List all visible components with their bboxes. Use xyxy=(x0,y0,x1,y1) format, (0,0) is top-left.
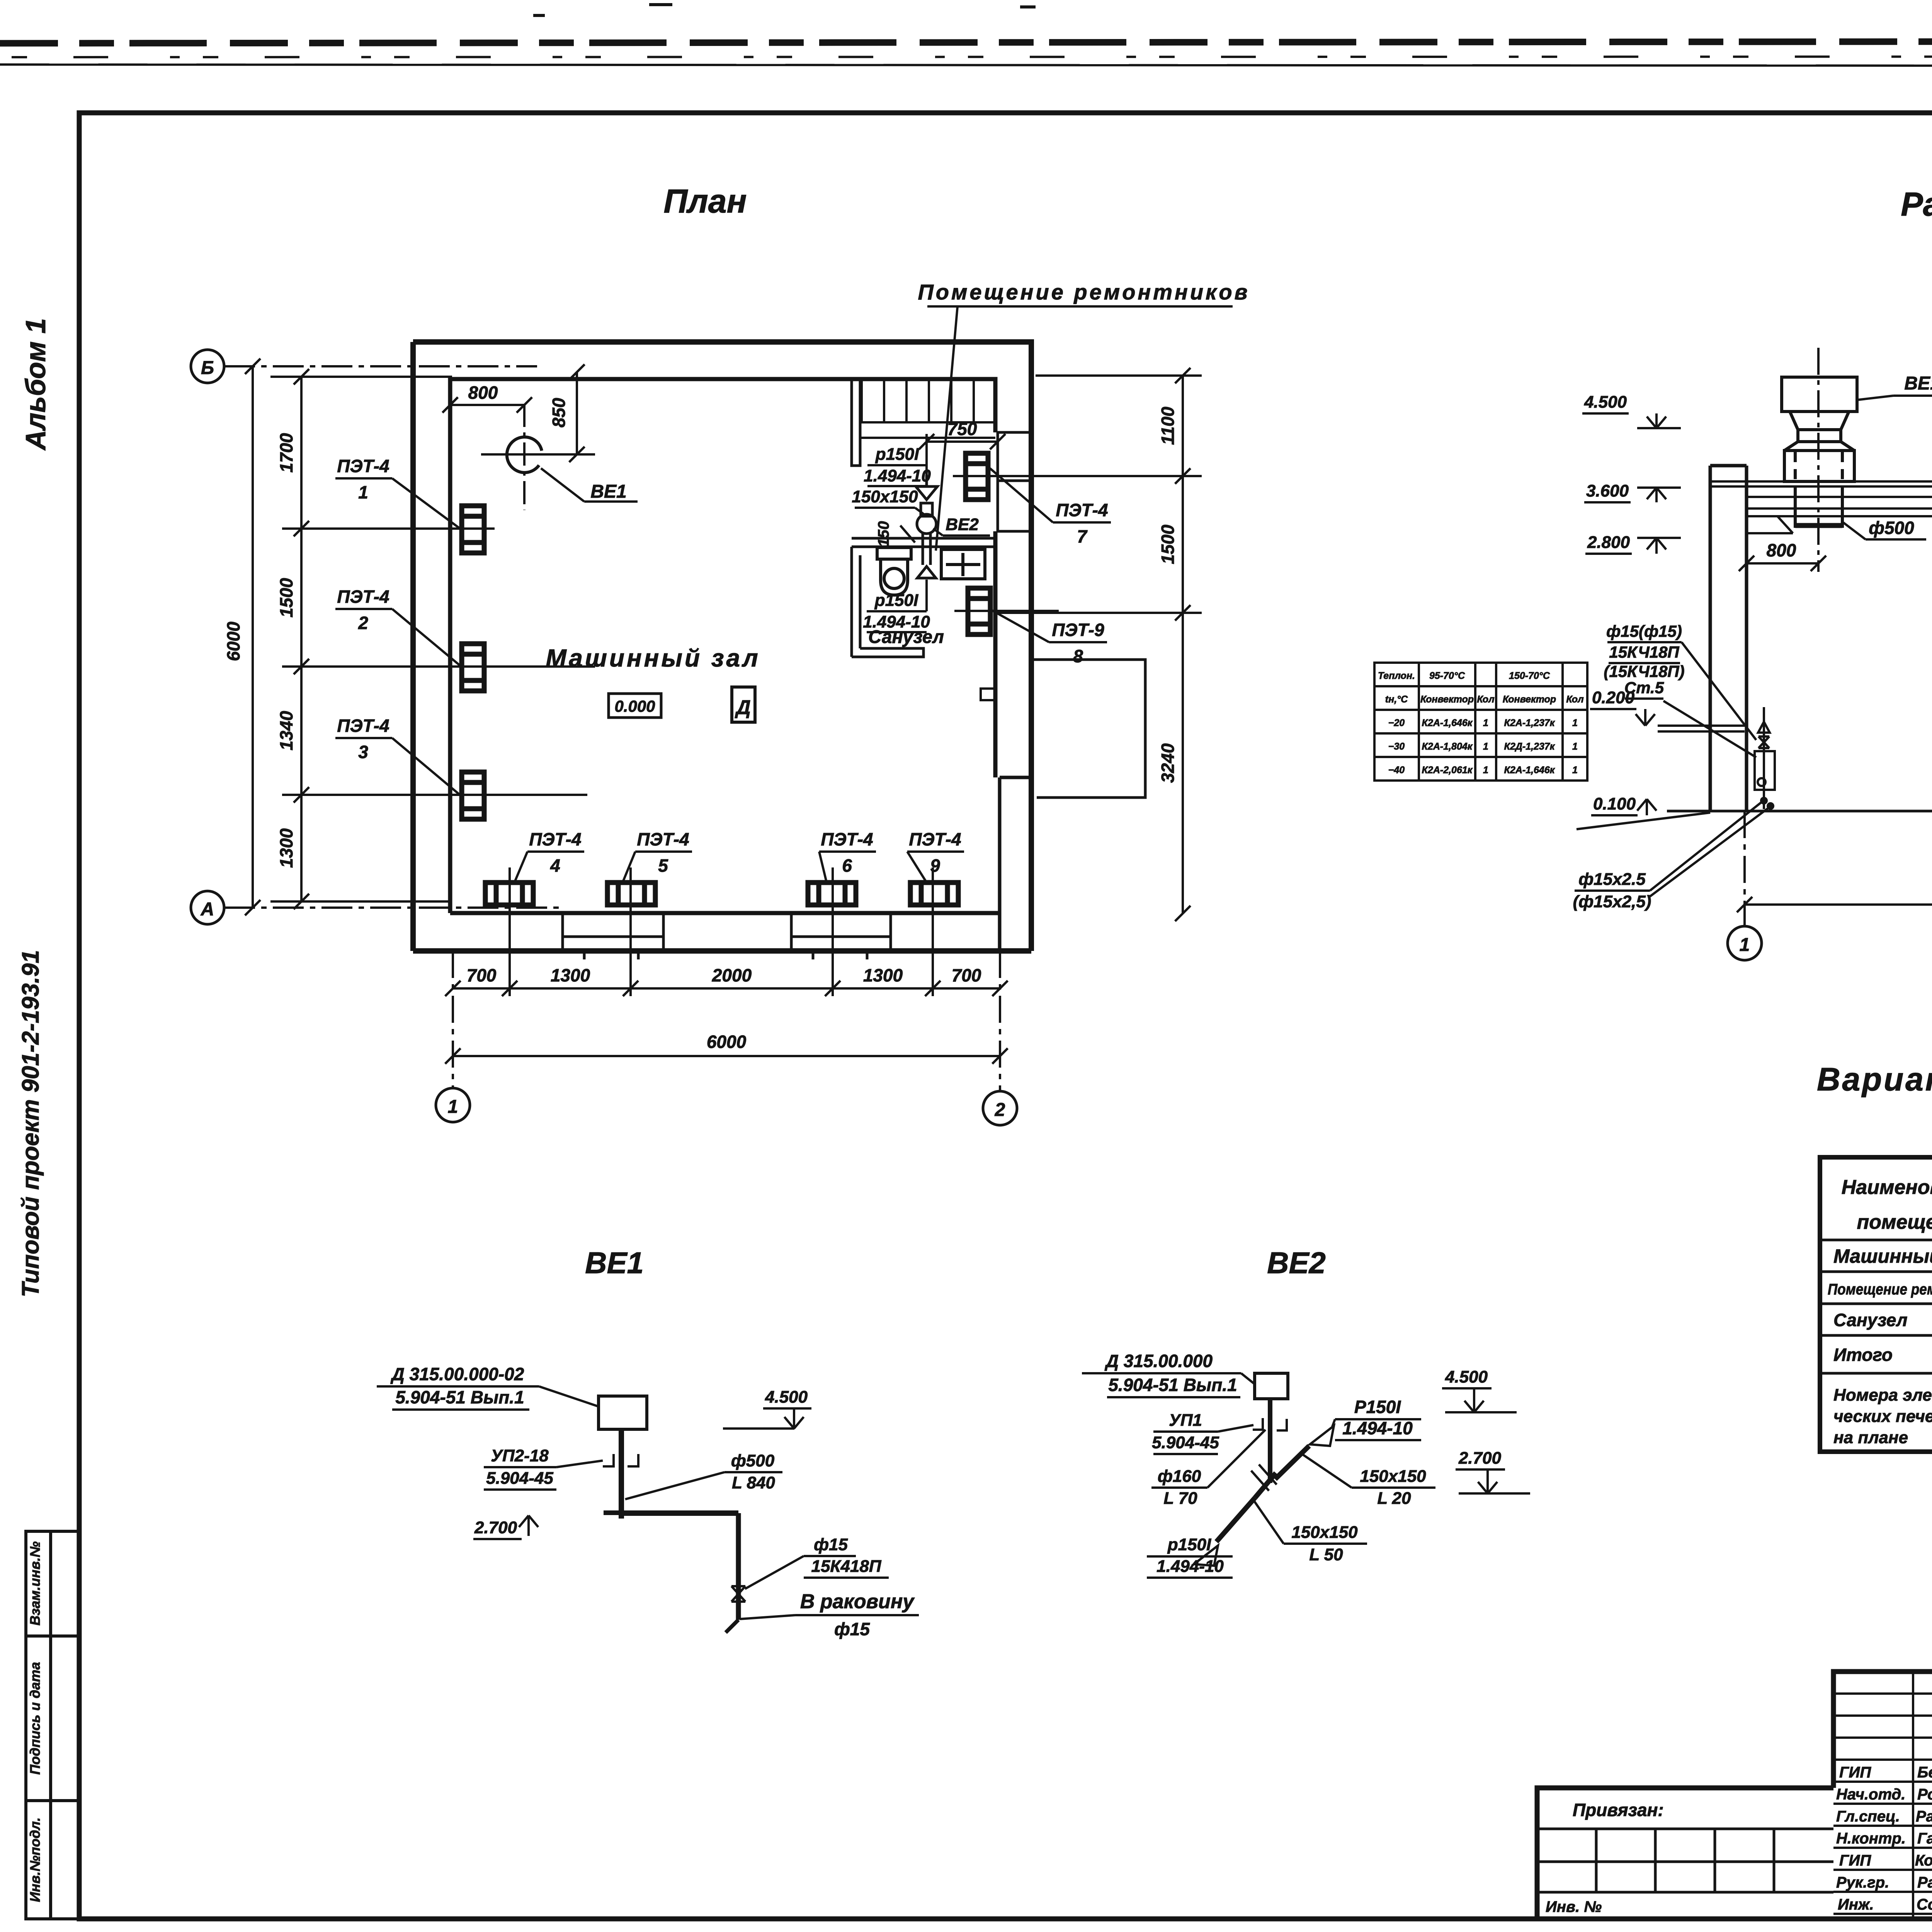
svg-text:Машинный зал: Машинный зал xyxy=(1833,1245,1932,1267)
svg-text:2.700: 2.700 xyxy=(1458,1449,1502,1468)
svg-text:Д 315.00.000: Д 315.00.000 xyxy=(1104,1351,1213,1371)
svg-text:Белянинов: Белянинов xyxy=(1917,1764,1932,1781)
plan dim 850 to BE1 xyxy=(558,364,595,462)
plan axis 1 circle xyxy=(453,951,1000,1090)
svg-text:700: 700 xyxy=(952,965,981,985)
svg-text:Ст.5: Ст.5 xyxy=(1624,679,1664,697)
bottom wall door openings with steps xyxy=(563,913,891,959)
svg-text:L 840: L 840 xyxy=(732,1473,775,1492)
svg-text:Инж.: Инж. xyxy=(1838,1896,1874,1913)
plan inner wall lines xyxy=(450,379,1000,913)
svg-text:Взам.инв.№: Взам.инв.№ xyxy=(27,1541,43,1626)
svg-text:1: 1 xyxy=(358,482,368,502)
svg-text:150х150: 150х150 xyxy=(1360,1467,1426,1486)
svg-text:К2А-2,061к: К2А-2,061к xyxy=(1422,765,1473,776)
svg-text:ПЭТ-4: ПЭТ-4 xyxy=(637,829,689,849)
svg-text:К2А-1,646к: К2А-1,646к xyxy=(1504,765,1555,776)
section dim 800 xyxy=(1739,556,1826,571)
svg-text:1300: 1300 xyxy=(551,965,590,985)
heater ПЭТ-4 4 (bottom row) xyxy=(485,883,533,905)
svg-text:Номера электри-: Номера электри- xyxy=(1833,1386,1932,1405)
svg-text:ВЕ1: ВЕ1 xyxy=(1904,373,1932,394)
svg-text:4.500: 4.500 xyxy=(1445,1367,1488,1386)
svg-text:ВЕ1: ВЕ1 xyxy=(590,481,626,502)
svg-text:Разувайкин: Разувайкин xyxy=(1916,1808,1932,1825)
deflector box BE1 xyxy=(599,1396,647,1429)
svg-text:Колесникова: Колесникова xyxy=(1915,1852,1932,1869)
svg-text:Теплон.: Теплон. xyxy=(1378,670,1415,681)
svg-text:ф160: ф160 xyxy=(1158,1467,1201,1486)
plan axis 2 circle xyxy=(983,1091,1017,1125)
svg-text:800: 800 xyxy=(468,383,498,403)
svg-text:1300: 1300 xyxy=(863,965,903,985)
svg-text:(15КЧ18П): (15КЧ18П) xyxy=(1604,662,1684,680)
pump mark Д framed xyxy=(732,687,755,722)
stairs treads xyxy=(861,380,995,438)
svg-text:150-70°С: 150-70°С xyxy=(1509,670,1550,681)
svg-text:Помещение ремонтников: Помещение ремонтников xyxy=(918,280,1250,304)
svg-text:ческих печей: ческих печей xyxy=(1833,1407,1932,1426)
svg-text:ф500: ф500 xyxy=(1869,518,1914,538)
svg-text:ПЭТ-4: ПЭТ-4 xyxy=(337,716,389,736)
svg-text:1340: 1340 xyxy=(276,711,296,750)
heater ПЭТ-4 2 (left wall middle) xyxy=(462,644,484,691)
support bracket marks BE2 xyxy=(1253,1418,1287,1430)
svg-text:А: А xyxy=(201,899,214,920)
svg-text:Конвектор: Конвектор xyxy=(1420,694,1474,705)
svg-text:1300: 1300 xyxy=(276,828,296,868)
svg-text:1: 1 xyxy=(1483,741,1488,752)
svg-text:ПЭТ-9: ПЭТ-9 xyxy=(1052,620,1104,640)
svg-text:Конвектор: Конвектор xyxy=(1503,694,1556,705)
outside grade left xyxy=(1577,813,1710,829)
toilet partition walls xyxy=(852,538,995,657)
heater ПЭТ-9 8 (near toilet) xyxy=(968,588,990,634)
svg-text:Кол: Кол xyxy=(1477,694,1495,705)
svg-text:1.494-10: 1.494-10 xyxy=(864,466,931,485)
svg-text:Типовой проект 901-2-193.91: Типовой проект 901-2-193.91 xyxy=(17,950,44,1298)
svg-text:1: 1 xyxy=(1483,718,1488,728)
svg-text:Инв. №: Инв. № xyxy=(1546,1898,1602,1915)
plan outer walls xyxy=(413,342,1031,951)
svg-text:Рук.гр.: Рук.гр. xyxy=(1836,1874,1889,1891)
svg-text:Инв.№подл.: Инв.№подл. xyxy=(27,1817,43,1902)
svg-text:1: 1 xyxy=(1483,765,1488,776)
section dim 6000 xyxy=(1737,811,1932,926)
plan left dim chain 1700/1500/1340/1300 xyxy=(270,369,595,909)
svg-text:Привязан:: Привязан: xyxy=(1573,1800,1664,1820)
staff roles xyxy=(1836,1764,1906,1913)
electric stoves table xyxy=(1820,1157,1932,1452)
heater ПЭТ-4 1 (left wall top) xyxy=(462,506,484,553)
svg-text:ф15: ф15 xyxy=(814,1535,848,1554)
staff names xyxy=(1915,1764,1932,1913)
svg-text:Подпись и дата: Подпись и дата xyxy=(27,1662,43,1775)
svg-text:К2А-1,237к: К2А-1,237к xyxy=(1504,718,1555,728)
deflector box BE2 xyxy=(1255,1373,1288,1399)
support bracket marks xyxy=(603,1454,638,1466)
svg-text:помещения: помещения xyxy=(1857,1211,1932,1233)
heater ПЭТ-4 3 (left wall bottom) xyxy=(462,772,484,819)
svg-text:150х150: 150х150 xyxy=(1291,1523,1358,1542)
svg-text:1.494-10: 1.494-10 xyxy=(1156,1557,1224,1576)
plan dim 800 to BE1 xyxy=(442,397,532,413)
plan bottom dim chain 700/1300/2000/1300/700 xyxy=(445,867,1008,996)
svg-text:на плане: на плане xyxy=(1833,1428,1908,1447)
svg-text:L 50: L 50 xyxy=(1309,1545,1343,1564)
svg-text:ПЭТ-4: ПЭТ-4 xyxy=(337,587,389,607)
svg-text:ВЕ1: ВЕ1 xyxy=(585,1246,644,1280)
svg-text:р150I: р150I xyxy=(1167,1535,1211,1554)
svg-text:р150I: р150I xyxy=(875,445,919,464)
svg-text:15КЧ18П: 15КЧ18П xyxy=(1609,643,1679,661)
svg-text:ф500: ф500 xyxy=(731,1451,775,1470)
svg-text:1100: 1100 xyxy=(1158,406,1178,445)
svg-text:К2Д-1,237к: К2Д-1,237к xyxy=(1504,741,1555,752)
BE1 axis line xyxy=(1817,348,1820,572)
plan dim 750 (repair room) xyxy=(919,434,1005,475)
svg-text:5: 5 xyxy=(658,855,668,876)
svg-text:Наименование: Наименование xyxy=(1842,1176,1932,1199)
lower right wall band xyxy=(1000,777,1031,951)
svg-text:ГИП: ГИП xyxy=(1839,1764,1871,1781)
svg-text:3: 3 xyxy=(358,742,368,762)
svg-text:1500: 1500 xyxy=(1158,524,1178,564)
svg-text:1500: 1500 xyxy=(276,578,296,617)
svg-text:К2А-1,646к: К2А-1,646к xyxy=(1422,718,1473,728)
svg-text:(ф15х2,5): (ф15х2,5) xyxy=(1573,892,1651,911)
svg-text:800: 800 xyxy=(1767,540,1796,560)
BE2 riser pipe xyxy=(1268,1399,1272,1483)
sink with cross xyxy=(941,549,985,579)
svg-text:К2А-1,804к: К2А-1,804к xyxy=(1422,741,1473,752)
svg-text:1.494-10: 1.494-10 xyxy=(863,612,930,631)
BE1 roof fan circle in plan xyxy=(507,437,542,473)
svg-text:1: 1 xyxy=(1572,718,1578,728)
svg-text:6000: 6000 xyxy=(707,1032,747,1052)
svg-text:1.494-10: 1.494-10 xyxy=(1342,1418,1413,1438)
svg-text:Разрез 1-1: Разрез 1-1 xyxy=(1901,186,1932,223)
lower duct flag xyxy=(1194,1546,1218,1566)
svg-text:150х150: 150х150 xyxy=(852,487,918,506)
svg-text:Д 315.00.000-02: Д 315.00.000-02 xyxy=(390,1364,524,1384)
svg-text:ф15: ф15 xyxy=(834,1619,870,1639)
heater ПЭТ-4 6 (bottom row) xyxy=(808,883,856,905)
svg-text:5.904-51 Вып.1: 5.904-51 Вып.1 xyxy=(395,1387,524,1407)
WC toilet bowl xyxy=(877,548,911,595)
svg-text:700: 700 xyxy=(467,965,497,985)
scan artifact: top heavy dashed line xyxy=(0,41,1932,43)
svg-text:План: План xyxy=(663,183,747,220)
svg-text:15К418П: 15К418П xyxy=(811,1557,881,1576)
section floor line xyxy=(1667,811,1932,827)
svg-text:1: 1 xyxy=(1572,741,1578,752)
svg-text:Гл.спец.: Гл.спец. xyxy=(1836,1808,1900,1825)
svg-text:150: 150 xyxy=(875,521,892,547)
plan axis Б dash-dot line xyxy=(224,365,537,367)
plan axis А dash-dot line xyxy=(224,906,564,909)
scan artifact: small top dashes xyxy=(533,5,1036,15)
section axis 1 circle xyxy=(1728,926,1762,960)
BE2 zig-zag duct xyxy=(1216,1446,1309,1542)
svg-text:7: 7 xyxy=(1077,526,1088,546)
svg-text:Вариант с электроотоплением: Вариант с электроотоплением xyxy=(1817,1061,1932,1097)
svg-text:L 20: L 20 xyxy=(1377,1489,1411,1508)
staff table grid xyxy=(1833,1672,1932,1919)
roof column capitals xyxy=(1747,516,1932,533)
svg-text:ВЕ2: ВЕ2 xyxy=(946,515,979,534)
svg-text:ПЭТ-4: ПЭТ-4 xyxy=(909,829,961,849)
svg-text:5.904-45: 5.904-45 xyxy=(1152,1433,1219,1452)
plan axis А circle xyxy=(191,891,224,924)
svg-text:tн,°С: tн,°С xyxy=(1385,694,1408,705)
heater ПЭТ-4 9 (bottom row) xyxy=(910,883,958,905)
heater ПЭТ-4 7 (repair room) xyxy=(966,453,988,500)
plan right dim chain 1100/1500/3240 xyxy=(953,368,1202,921)
svg-text:Гаврикова: Гаврикова xyxy=(1917,1830,1932,1847)
svg-text:2000: 2000 xyxy=(712,965,752,985)
svg-text:L 70: L 70 xyxy=(1163,1489,1197,1508)
right wall small stub xyxy=(981,689,996,700)
svg-text:−30: −30 xyxy=(1388,741,1405,752)
bottom-left margin stamp strip xyxy=(26,1531,79,1919)
riser assembly Ст.5 left xyxy=(1755,707,1775,809)
BE1 tee and horizontal pipe xyxy=(604,1510,639,1515)
svg-text:ПЭТ-4: ПЭТ-4 xyxy=(821,829,873,849)
svg-text:Разумов: Разумов xyxy=(1917,1874,1932,1891)
svg-text:2: 2 xyxy=(358,613,368,633)
svg-text:95-70°С: 95-70°С xyxy=(1429,670,1465,681)
left attach box xyxy=(1537,1829,1833,1892)
svg-text:Машинный зал: Машинный зал xyxy=(546,644,760,672)
svg-text:1: 1 xyxy=(448,1097,458,1117)
scan artifact: top thin solid rule xyxy=(0,65,1932,66)
svg-text:1: 1 xyxy=(1740,935,1750,955)
right side underground extension xyxy=(1031,660,1145,798)
svg-text:4.500: 4.500 xyxy=(765,1388,808,1406)
svg-text:ПЭТ-4: ПЭТ-4 xyxy=(337,456,389,476)
valve on down pipe xyxy=(731,1586,745,1602)
svg-text:6: 6 xyxy=(842,855,852,876)
svg-text:6000: 6000 xyxy=(223,621,243,661)
svg-text:4.500: 4.500 xyxy=(1584,393,1627,412)
svg-text:Романов: Романов xyxy=(1917,1786,1932,1803)
svg-text:5.904-45: 5.904-45 xyxy=(486,1469,553,1488)
svg-text:2.700: 2.700 xyxy=(474,1518,517,1537)
svg-text:−40: −40 xyxy=(1388,765,1405,776)
svg-text:Н.контр.: Н.контр. xyxy=(1836,1830,1906,1847)
upper duct flag xyxy=(1310,1426,1334,1446)
svg-text:Альбом 1: Альбом 1 xyxy=(20,318,51,451)
svg-text:1: 1 xyxy=(1572,765,1578,776)
svg-text:Итого: Итого xyxy=(1833,1345,1893,1365)
svg-text:В раковину: В раковину xyxy=(800,1590,915,1613)
plan left dim line 6000 xyxy=(245,359,260,915)
right wall door niche xyxy=(998,432,1032,531)
svg-text:Соловьева: Соловьева xyxy=(1917,1896,1932,1913)
svg-text:8: 8 xyxy=(1073,646,1083,666)
svg-text:ф15х2.5: ф15х2.5 xyxy=(1578,870,1646,889)
BE1 deflector on roof xyxy=(1782,377,1857,528)
level 0.000 framed xyxy=(609,694,661,718)
svg-text:850: 850 xyxy=(549,398,569,427)
heater ПЭТ-4 5 (bottom row) xyxy=(607,883,655,905)
svg-text:−20: −20 xyxy=(1388,718,1405,728)
BE1 riser pipe xyxy=(619,1429,624,1519)
svg-text:УП2-18: УП2-18 xyxy=(491,1446,549,1465)
svg-text:Б: Б xyxy=(201,358,214,378)
svg-text:Помещение ремонтников: Помещение ремонтников xyxy=(1828,1281,1932,1298)
svg-text:2.800: 2.800 xyxy=(1587,533,1630,552)
svg-text:5.904-51 Вып.1: 5.904-51 Вып.1 xyxy=(1108,1375,1237,1395)
svg-text:УП1: УП1 xyxy=(1169,1411,1202,1430)
plan axis Б circle xyxy=(191,350,224,383)
svg-text:р150I: р150I xyxy=(874,591,918,610)
svg-text:Кол: Кол xyxy=(1566,694,1584,705)
section left column xyxy=(1710,466,1747,811)
plan bottom dim 6000 xyxy=(445,1048,1008,1064)
svg-text:Нач.отд.: Нач.отд. xyxy=(1836,1786,1905,1803)
svg-text:1700: 1700 xyxy=(276,433,296,473)
svg-text:Р150I: Р150I xyxy=(1354,1397,1401,1417)
scan artifact: top sparse dotted line xyxy=(12,56,1932,57)
label BE1 with leader xyxy=(541,468,584,502)
svg-text:0.100: 0.100 xyxy=(1593,794,1636,813)
svg-text:ВЕ2: ВЕ2 xyxy=(1267,1246,1326,1280)
BE1 down pipe to sink xyxy=(736,1513,741,1620)
svg-text:3240: 3240 xyxy=(1158,743,1178,783)
svg-text:Санузел: Санузел xyxy=(1833,1310,1908,1330)
BE2 funnel and valve assembly in plan xyxy=(916,475,937,578)
svg-text:0.000: 0.000 xyxy=(614,697,655,715)
title block outline xyxy=(1537,1672,1932,1919)
svg-text:ПЭТ-4: ПЭТ-4 xyxy=(1056,500,1108,520)
svg-text:3.600: 3.600 xyxy=(1586,481,1629,500)
svg-text:ПЭТ-4: ПЭТ-4 xyxy=(529,829,581,849)
svg-text:2: 2 xyxy=(995,1100,1005,1120)
svg-text:4: 4 xyxy=(550,855,560,876)
svg-text:750: 750 xyxy=(947,419,977,439)
section roof slab xyxy=(1710,481,1932,516)
svg-text:ГИП: ГИП xyxy=(1839,1852,1871,1869)
svg-text:ф15(ф15): ф15(ф15) xyxy=(1606,622,1682,640)
svg-text:Д: Д xyxy=(735,696,751,719)
partition wall between hall and repair room xyxy=(852,379,860,466)
left convector table xyxy=(1374,663,1587,781)
